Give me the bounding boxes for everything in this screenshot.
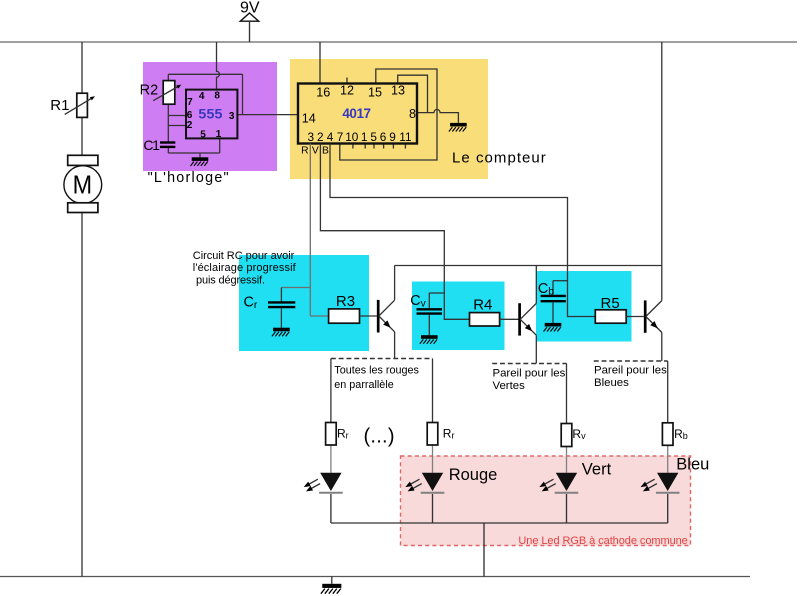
svg-text:Le compteur: Le compteur bbox=[452, 149, 546, 166]
svg-text:R5: R5 bbox=[601, 295, 620, 312]
svg-text:"L'horloge": "L'horloge" bbox=[148, 170, 229, 186]
svg-text:(...): (...) bbox=[364, 425, 395, 447]
svg-text:R1: R1 bbox=[50, 97, 69, 114]
svg-text:13: 13 bbox=[391, 84, 405, 98]
svg-text:Circuit RC pour avoir: Circuit RC pour avoir bbox=[193, 250, 295, 262]
svg-text:9: 9 bbox=[389, 130, 396, 144]
svg-text:5: 5 bbox=[200, 129, 206, 140]
svg-text:puis dégressif.: puis dégressif. bbox=[196, 274, 265, 286]
svg-text:555: 555 bbox=[198, 106, 222, 122]
svg-text:Vertes: Vertes bbox=[493, 380, 526, 392]
svg-text:7: 7 bbox=[337, 130, 344, 144]
svg-text:Pareil pour les: Pareil pour les bbox=[493, 368, 566, 380]
svg-text:Rr: Rr bbox=[337, 427, 349, 441]
svg-text:R3: R3 bbox=[336, 293, 355, 310]
svg-text:en parrallèle: en parrallèle bbox=[334, 379, 393, 391]
svg-text:14: 14 bbox=[302, 112, 316, 126]
svg-text:9V: 9V bbox=[240, 0, 260, 17]
svg-text:Une Led RGB à cathode commune: Une Led RGB à cathode commune bbox=[518, 535, 687, 547]
svg-text:5: 5 bbox=[370, 130, 377, 144]
svg-text:R2: R2 bbox=[140, 83, 159, 99]
svg-text:7: 7 bbox=[187, 97, 193, 108]
svg-text:Rv: Rv bbox=[572, 427, 586, 441]
svg-text:4017: 4017 bbox=[342, 106, 371, 121]
svg-text:12: 12 bbox=[340, 84, 354, 98]
svg-text:Rouge: Rouge bbox=[449, 466, 498, 484]
svg-text:4: 4 bbox=[327, 130, 334, 144]
svg-text:2: 2 bbox=[187, 120, 193, 131]
svg-text:1: 1 bbox=[216, 129, 222, 140]
svg-text:B: B bbox=[322, 145, 329, 156]
svg-text:R4: R4 bbox=[473, 297, 492, 314]
svg-text:Vert: Vert bbox=[582, 460, 612, 478]
svg-text:8: 8 bbox=[214, 91, 220, 102]
svg-text:1: 1 bbox=[361, 130, 368, 144]
svg-text:16: 16 bbox=[316, 86, 330, 100]
svg-text:15: 15 bbox=[368, 86, 382, 100]
svg-text:Rb: Rb bbox=[674, 427, 688, 441]
svg-text:V: V bbox=[312, 145, 319, 156]
svg-text:Toutes les rouges: Toutes les rouges bbox=[334, 364, 419, 376]
svg-text:8: 8 bbox=[409, 107, 416, 121]
svg-text:Rr: Rr bbox=[443, 427, 455, 441]
svg-text:2: 2 bbox=[317, 130, 324, 144]
svg-text:3: 3 bbox=[229, 111, 235, 122]
svg-text:4: 4 bbox=[199, 91, 205, 102]
svg-text:6: 6 bbox=[380, 130, 387, 144]
svg-text:M: M bbox=[73, 169, 93, 199]
svg-text:10: 10 bbox=[345, 130, 359, 144]
svg-text:11: 11 bbox=[399, 130, 411, 144]
svg-text:Bleu: Bleu bbox=[676, 456, 709, 474]
svg-text:Pareil pour les: Pareil pour les bbox=[594, 364, 667, 376]
svg-text:l'éclairage progressif: l'éclairage progressif bbox=[193, 262, 297, 274]
svg-text:R: R bbox=[301, 145, 308, 156]
svg-text:C1: C1 bbox=[143, 137, 160, 153]
svg-text:Bleues: Bleues bbox=[594, 377, 629, 389]
svg-text:3: 3 bbox=[308, 130, 315, 144]
